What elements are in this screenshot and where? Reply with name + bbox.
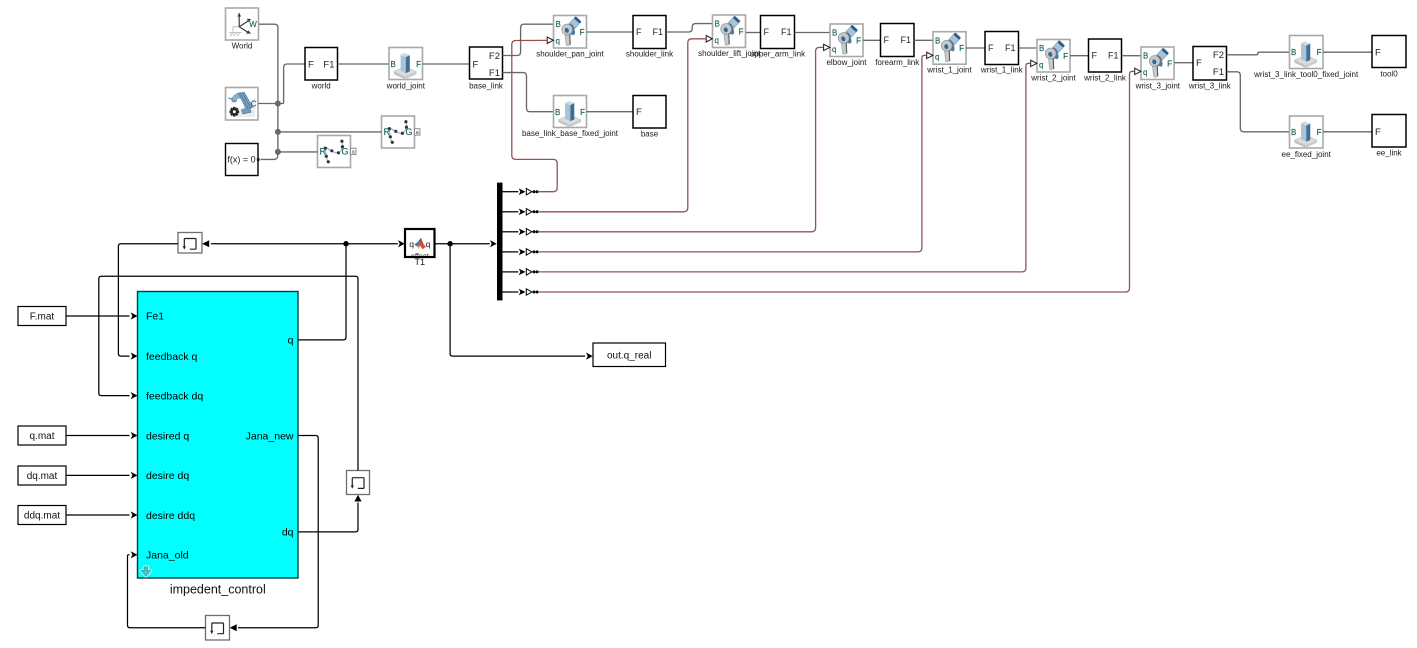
q-port triangle wrist_3_joint (1135, 68, 1141, 74)
wire q.mat to impedent_control (66, 432, 138, 439)
wire to out.q_real (450, 244, 593, 360)
wire dq output to Memory2 (298, 495, 362, 532)
svg-text:Fe1: Fe1 (146, 311, 164, 323)
label base_link_base_fixed_joint (522, 129, 619, 138)
joint wrist_1_joint (933, 32, 966, 64)
joint shoulder_lift_joint (713, 15, 746, 48)
svg-text:T1: T1 (415, 257, 426, 267)
label shoulder_lift_joint (698, 49, 761, 58)
svg-text:dq.mat: dq.mat (27, 471, 58, 482)
physical signal wire to elbow_joint.q (538, 47, 824, 231)
block upper_arm_link (761, 16, 795, 49)
label world (311, 81, 331, 90)
wire ee_fixed_joint.F to ee_link.F (1323, 131, 1372, 133)
label wrist_2_joint (1030, 73, 1076, 82)
block out.q_real (593, 343, 666, 367)
block wrist_3_link_tool0_fixed_joint (1290, 36, 1324, 69)
svg-text:F: F (473, 59, 479, 70)
q-port triangle shoulder_lift_joint (706, 36, 712, 42)
svg-text:G: G (341, 147, 348, 157)
q-port triangle wrist_2_joint (1031, 60, 1037, 66)
svg-text:tool0: tool0 (1380, 69, 1398, 78)
svg-text:B: B (1291, 128, 1296, 137)
block wrist_3_link (1193, 47, 1227, 81)
wire wrist_3_joint.F to wrist_3_link.F (1175, 62, 1194, 64)
joint shoulder_pan_joint (554, 16, 587, 49)
svg-text:F: F (856, 36, 861, 45)
svg-text:wrist_3_link: wrist_3_link (1188, 81, 1232, 90)
block base_link (470, 47, 503, 79)
junction dot T1 output (447, 241, 452, 246)
svg-text:wrist_1_joint: wrist_1_joint (926, 66, 972, 75)
svg-text:q: q (409, 239, 414, 249)
label shoulder_pan_joint (536, 49, 604, 58)
block base_link_base_fixed_joint (554, 96, 587, 128)
svg-text:F: F (308, 59, 314, 70)
svg-text:wrist_2_link: wrist_2_link (1083, 73, 1127, 82)
svg-text:Jana_new: Jana_new (246, 430, 294, 442)
svg-text:wrist_1_link: wrist_1_link (980, 66, 1024, 75)
block Solver Configuration f(x)=0 (226, 144, 260, 176)
label wrist_3_link (1188, 81, 1232, 90)
label ee_fixed_joint (1282, 150, 1332, 159)
svg-text:B: B (1143, 52, 1148, 61)
label base (641, 130, 659, 139)
svg-text:F: F (416, 60, 421, 69)
wire world_joint.F to base_link.F (423, 63, 470, 65)
wire q-line to T1 input (346, 240, 405, 247)
svg-text:Jana_old: Jana_old (146, 550, 189, 562)
block world (link) (305, 48, 338, 81)
svg-text:feedback dq: feedback dq (146, 390, 203, 402)
block wrist_1_link (985, 32, 1019, 65)
svg-text:F: F (1092, 51, 1098, 61)
block T1 (MATLAB function offset) (405, 229, 435, 261)
svg-text:F: F (1375, 127, 1381, 138)
block forearm_link (881, 24, 915, 57)
physical signal wire to wrist_1_joint.q (538, 55, 927, 252)
wire base_link_base_fixed_joint.F to base.F (587, 111, 634, 113)
svg-text:shoulder_pan_joint: shoulder_pan_joint (536, 49, 604, 58)
svg-text:F: F (1063, 52, 1068, 61)
physical signal wire to shoulder_lift_joint.q (538, 39, 706, 212)
svg-text:ddq.mat: ddq.mat (24, 511, 60, 522)
block Memory3 (bottom) (206, 616, 230, 641)
demux output stub shoulder_lift (503, 209, 526, 216)
svg-text:q: q (935, 53, 939, 62)
demux output stub elbow (503, 229, 526, 236)
svg-text:q: q (1039, 60, 1043, 69)
svg-text:F: F (1317, 128, 1322, 137)
wire forearm_link.F1 to wrist_1_joint.B (914, 39, 933, 41)
wire solver to trunk (261, 152, 278, 159)
block Memory1 (top) (178, 233, 202, 254)
wire world.F branch (284, 64, 305, 104)
q-port triangle shoulder_pan_joint (547, 37, 553, 43)
svg-text:shoulder_link: shoulder_link (626, 49, 674, 58)
svg-text:q.mat: q.mat (29, 431, 54, 442)
svg-text:B: B (715, 20, 720, 29)
label world_joint (386, 81, 426, 90)
wire World.W to trunk (259, 24, 278, 152)
label wrist_2_link (1083, 73, 1127, 82)
svg-text:q: q (832, 45, 836, 54)
wire Memory2 out to feedback dq (99, 276, 358, 470)
svg-text:f(x) = 0: f(x) = 0 (227, 155, 255, 165)
demux output stub wrist_3 (503, 289, 526, 296)
svg-text:B: B (556, 20, 561, 29)
svg-text:B: B (1291, 48, 1296, 57)
label upper_arm_link (750, 49, 806, 58)
svg-text:q: q (426, 239, 431, 249)
svg-text:elbow_joint: elbow_joint (826, 58, 867, 67)
wire shoulder_lift_joint.F to upper_arm_link.F (746, 32, 761, 34)
svg-text:desire dq: desire dq (146, 470, 189, 482)
junction dot trunk-C (275, 101, 281, 107)
svg-text:F2: F2 (1213, 50, 1224, 61)
wire trunk to RG2.R (278, 151, 318, 153)
wire ddq.mat to impedent_control (66, 511, 138, 518)
block World (world frame) (226, 8, 259, 40)
wire elbow_joint.F to forearm_link.F (863, 39, 881, 41)
label shoulder_link (626, 49, 674, 58)
svg-text:G: G (405, 127, 412, 137)
svg-text:F1: F1 (900, 35, 911, 45)
svg-text:F: F (739, 27, 744, 36)
wire shoulder_link.F1 to shoulder_lift_joint.B (666, 24, 713, 32)
svg-text:F2: F2 (489, 51, 500, 62)
block RG1 (upper) (382, 116, 420, 148)
block ddq.mat (18, 506, 66, 525)
block q.mat (18, 426, 66, 445)
joint elbow_joint (830, 24, 863, 57)
wire Memory3 out to Jana_old (128, 551, 206, 628)
svg-text:F: F (1196, 58, 1202, 69)
wire base_link.F2 to shoulder_pan_joint.B (503, 24, 554, 55)
svg-text:C: C (251, 100, 257, 109)
block shoulder_link (633, 16, 666, 49)
svg-text:F: F (1317, 48, 1322, 57)
block Memory2 (right) (347, 471, 370, 495)
Simulink-PS converter wrist_2 (526, 269, 538, 275)
junction dot q line (343, 241, 348, 246)
wire trunk to RG1.R (278, 131, 382, 133)
svg-text:F1: F1 (1108, 51, 1119, 61)
svg-text:F: F (636, 27, 642, 37)
svg-text:F1: F1 (1005, 43, 1016, 53)
svg-text:F: F (988, 43, 994, 53)
wire wrist_1_link.F1 to wrist_2_joint.B (1019, 47, 1038, 49)
svg-text:wrist_3_link_tool0_fixed_joint: wrist_3_link_tool0_fixed_joint (1253, 70, 1359, 79)
physical signal wire to wrist_3_joint.q (538, 71, 1135, 292)
wire upper_arm_link.F1 to elbow_joint.B (795, 32, 831, 34)
wire F.mat to impedent_control (66, 312, 138, 319)
wire wrist_2_joint.F to wrist_2_link.F (1070, 55, 1089, 57)
wire wrist_2_link.F1 to wrist_3_joint.B (1122, 55, 1142, 57)
q-port triangle wrist_1_joint (927, 52, 933, 58)
svg-text:B: B (555, 108, 560, 117)
svg-text:B: B (1039, 44, 1044, 53)
label wrist_3_link_tool0_fixed_joint (1253, 70, 1359, 79)
svg-text:F: F (764, 27, 770, 37)
svg-text:out.q_real: out.q_real (607, 350, 651, 361)
block dq.mat (18, 466, 66, 485)
svg-text:R: R (384, 127, 391, 137)
svg-text:F: F (636, 107, 642, 118)
junction dot trunk-RG2 (275, 149, 281, 155)
label forearm_link (875, 58, 920, 67)
block F.mat (18, 307, 66, 326)
svg-text:F1: F1 (1213, 67, 1224, 78)
svg-text:F: F (580, 108, 585, 117)
wire wrist_1_joint.F to wrist_1_link.F (966, 47, 985, 49)
svg-text:wrist_3_joint: wrist_3_joint (1135, 81, 1181, 90)
joint wrist_3_joint (1141, 47, 1174, 80)
wire wrist_3_link.F1 to ee_fixed_joint.B (1227, 72, 1290, 132)
label impedent_control (170, 582, 266, 596)
Simulink-PS converter shoulder_pan (526, 189, 538, 195)
svg-text:q: q (556, 36, 560, 45)
svg-text:F1: F1 (781, 27, 792, 37)
svg-text:F: F (1375, 47, 1381, 58)
svg-text:base_link: base_link (469, 81, 504, 90)
wire MechanismConfig.C (258, 103, 284, 105)
wire T1 output to demux (435, 240, 497, 247)
wire dq.mat to impedent_control (66, 472, 138, 479)
block Mechanism Configuration (226, 88, 259, 121)
svg-text:desired q: desired q (146, 430, 189, 442)
block ee_fixed_joint (1290, 116, 1324, 148)
svg-text:ee_fixed_joint: ee_fixed_joint (1282, 150, 1332, 159)
svg-text:F: F (959, 44, 964, 53)
svg-text:q: q (1143, 68, 1147, 77)
svg-text:B: B (832, 29, 837, 38)
wire q output to memory/T1 line (202, 240, 346, 340)
svg-text:B: B (935, 36, 940, 45)
svg-text:F1: F1 (323, 59, 334, 70)
svg-text:forearm_link: forearm_link (875, 58, 920, 67)
wire tool0_fixed_joint.F to tool0.F (1323, 51, 1372, 53)
svg-text:q: q (288, 335, 294, 347)
block impedent_control (subsystem) (138, 292, 299, 579)
block world_joint (389, 48, 423, 80)
svg-text:F: F (1167, 59, 1172, 68)
svg-text:q: q (715, 36, 719, 45)
block ee_link (1372, 115, 1406, 148)
label tool0 (1380, 69, 1398, 78)
wire wrist_3_link.F2 to wrist_3_link_tool0_fixed_joint.B (1227, 52, 1290, 55)
svg-text:F1: F1 (489, 68, 500, 79)
label base_link (469, 81, 504, 90)
svg-text:F: F (884, 35, 890, 45)
junction dot trunk-RG1 (275, 129, 281, 135)
Simulink-PS converter shoulder_lift (526, 209, 538, 215)
label elbow_joint (826, 58, 867, 67)
svg-text:F: F (580, 28, 585, 37)
label T1 (415, 257, 426, 267)
svg-text:base_link_base_fixed_joint: base_link_base_fixed_joint (522, 129, 619, 138)
q-port triangle elbow_joint (824, 44, 830, 50)
demux output stub shoulder_pan (503, 188, 526, 195)
Simulink-PS converter wrist_3 (526, 289, 538, 295)
label wrist_1_link (980, 66, 1024, 75)
demux bar (497, 183, 503, 301)
label World (232, 41, 253, 50)
svg-text:feedback q: feedback q (146, 351, 198, 363)
Simulink-PS converter elbow (526, 229, 538, 235)
svg-text:ee_link: ee_link (1376, 148, 1402, 157)
block tool0 (1372, 36, 1406, 68)
label ee_link (1376, 148, 1402, 157)
svg-text:upper_arm_link: upper_arm_link (750, 49, 806, 58)
label wrist_1_joint (926, 66, 972, 75)
block base (633, 96, 666, 129)
wire world.F1 to world_joint.B (338, 63, 390, 65)
svg-text:wrist_2_joint: wrist_2_joint (1030, 73, 1076, 82)
svg-text:B: B (391, 60, 396, 69)
svg-text:world: world (311, 81, 331, 90)
block wrist_2_link (1089, 39, 1122, 72)
wire Jana_new to Memory3 (230, 436, 319, 632)
physical signal wire to shoulder_pan_joint.q (512, 40, 557, 191)
svg-text:World: World (232, 41, 253, 50)
svg-text:impedent_control: impedent_control (170, 582, 266, 596)
svg-text:desire ddq: desire ddq (146, 510, 195, 522)
physical signal wire to wrist_2_joint.q (538, 63, 1031, 272)
block RG2 (lower) (318, 136, 356, 168)
joint wrist_2_joint (1037, 40, 1070, 73)
Simulink-PS converter wrist_1 (526, 249, 538, 255)
wire Memory1 out to feedback q (118, 244, 178, 360)
label wrist_3_joint (1135, 81, 1181, 90)
demux output stub wrist_1 (503, 249, 526, 256)
svg-text:W: W (249, 20, 257, 29)
demux output stub wrist_2 (503, 269, 526, 276)
svg-text:F1: F1 (652, 27, 663, 37)
svg-text:base: base (641, 130, 659, 139)
svg-text:dq: dq (282, 527, 294, 539)
wire base_link.F1 to base_link_base_fixed_joint.B (503, 73, 554, 112)
svg-text:world_joint: world_joint (386, 81, 426, 90)
svg-text:R: R (320, 147, 327, 157)
svg-text:F.mat: F.mat (30, 312, 55, 323)
wire shoulder_pan_joint.F to shoulder_link.F (587, 31, 634, 33)
